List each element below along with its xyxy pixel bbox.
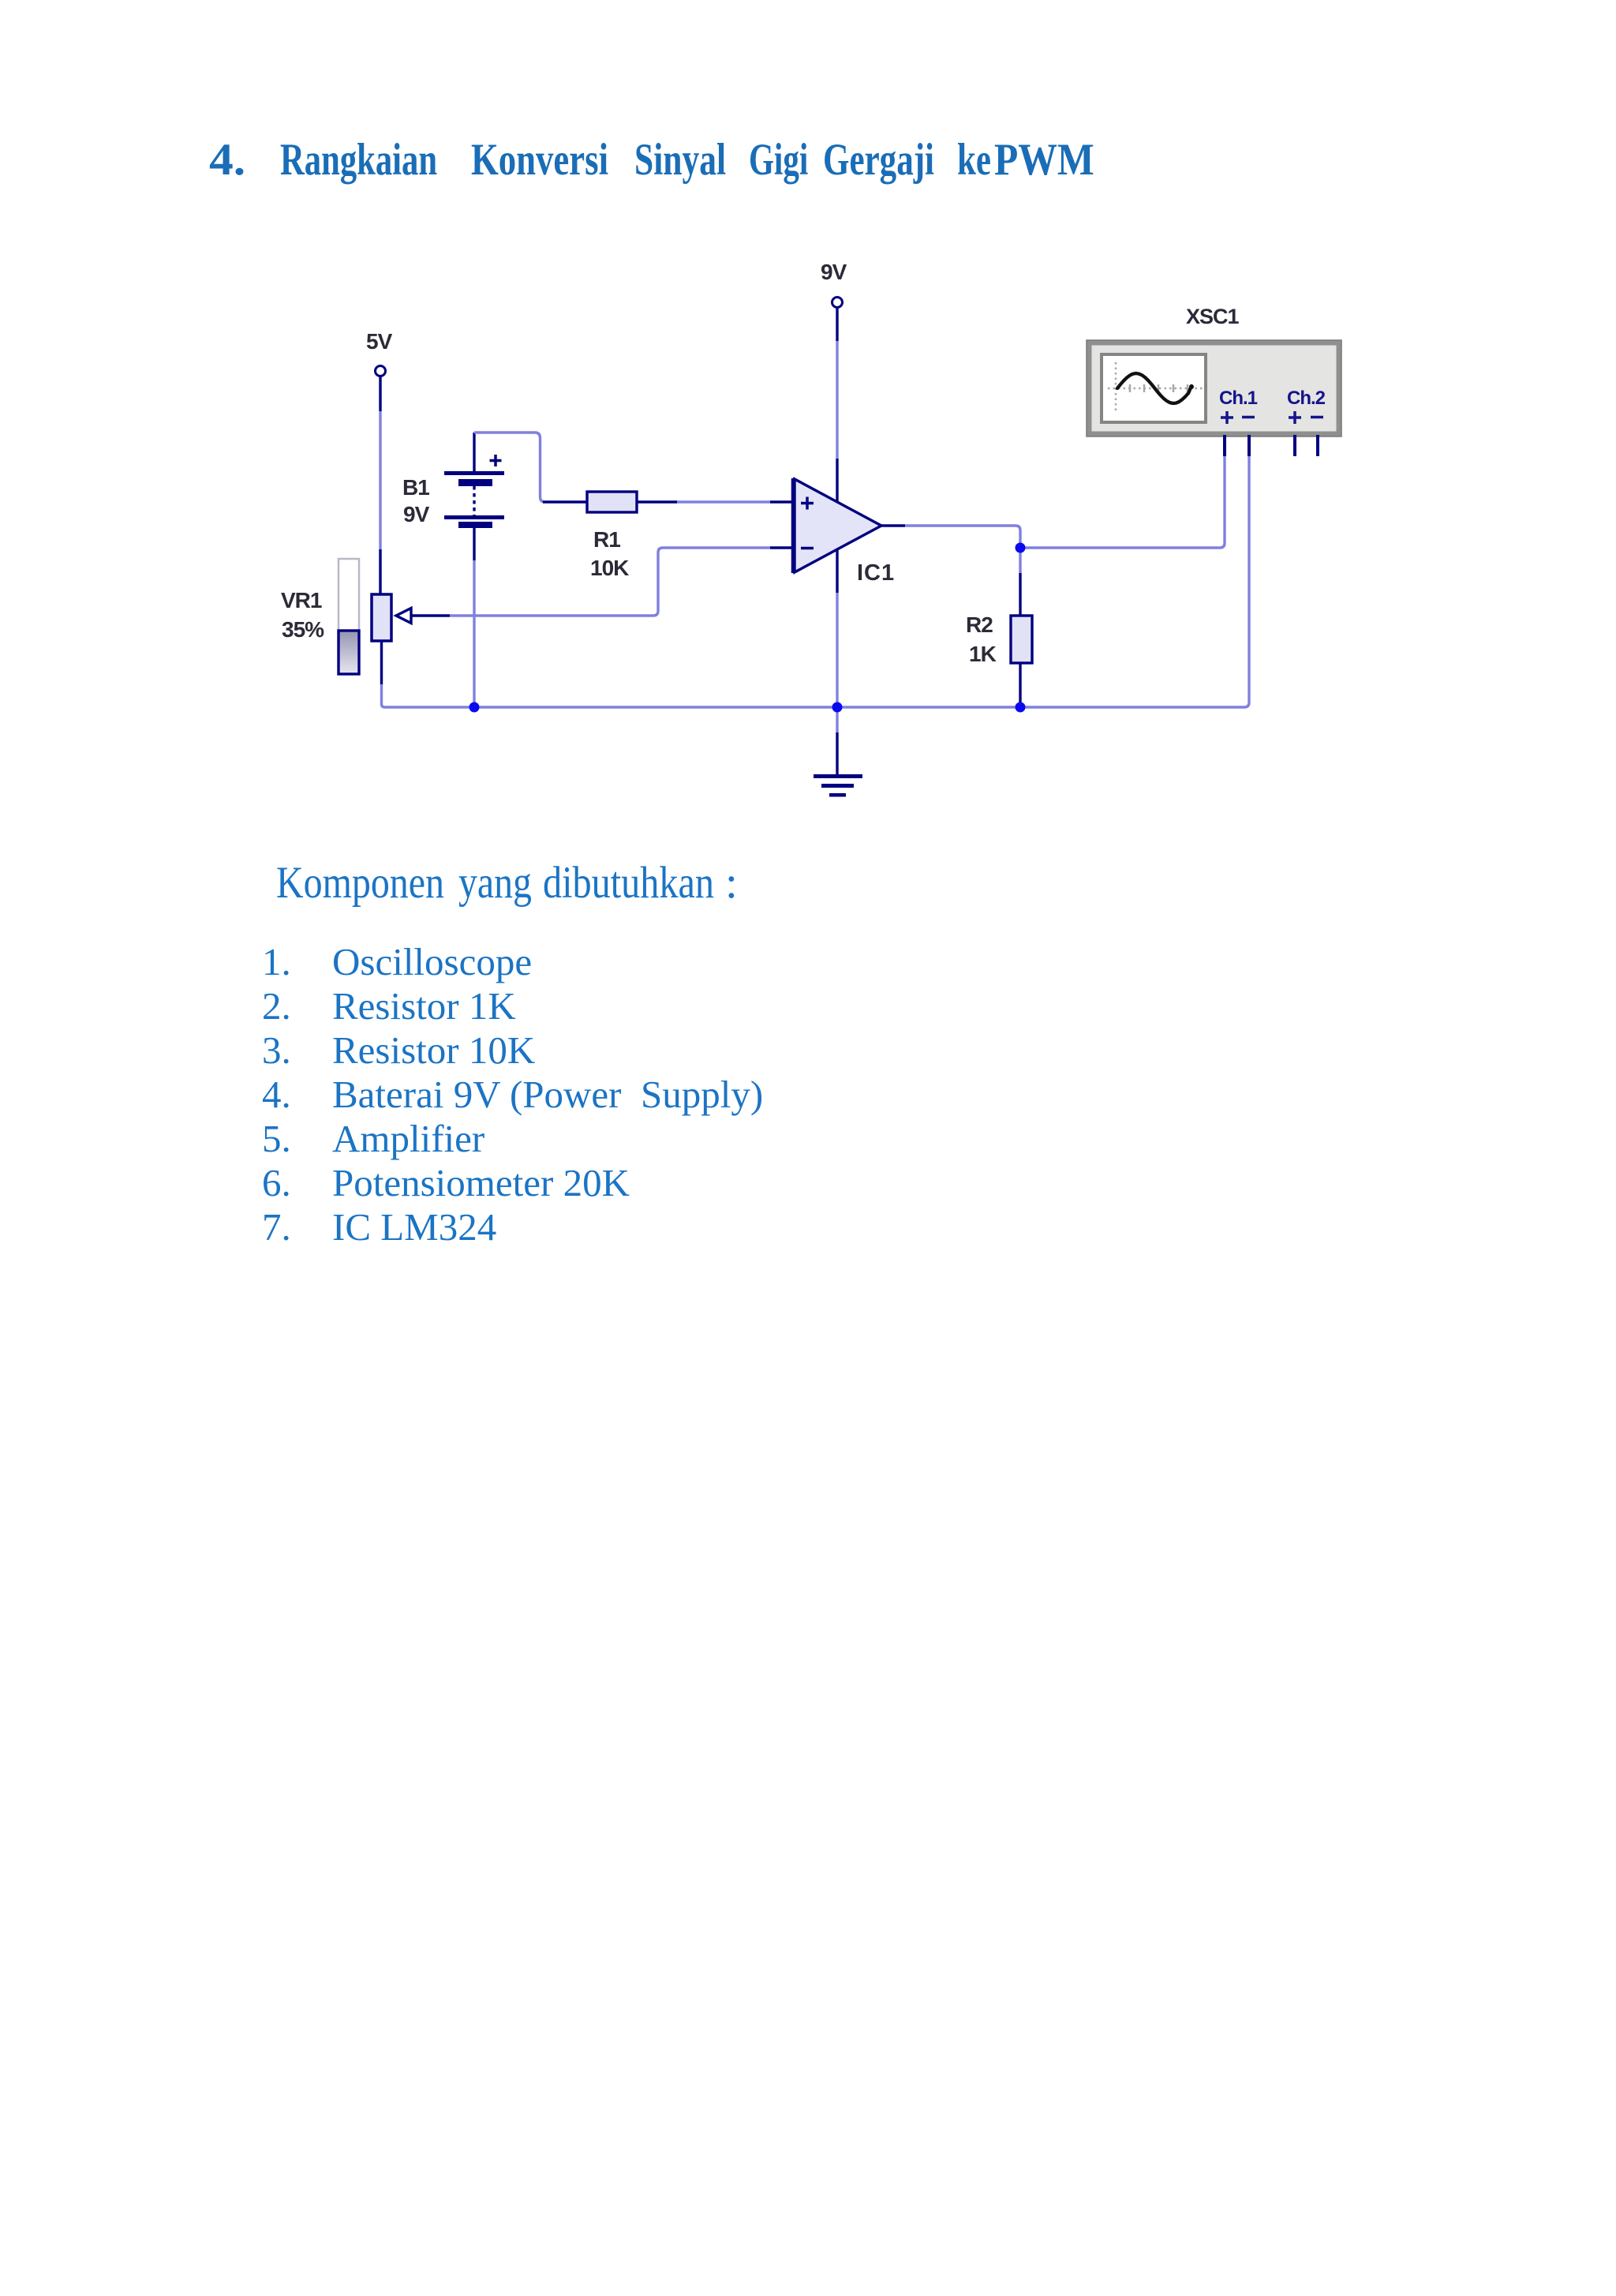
wire VR1 wiper to op-amp minus input: [411, 548, 794, 616]
wire 9V terminal to op-amp power pin: [836, 308, 838, 503]
wire battery minus to ground rail: [473, 560, 475, 707]
wire VR1 bottom to ground rail: [382, 641, 385, 707]
svg-text:10K: 10K: [590, 556, 629, 580]
pin Ch.1 plus: [1223, 435, 1226, 456]
wire battery plus to R1: [474, 433, 587, 502]
battery B1: [402, 433, 504, 560]
wire R2 bottom to ground rail: [1019, 663, 1021, 707]
node 9V label: [821, 260, 847, 284]
svg-text:R2: R2: [966, 612, 993, 637]
wire op-amp output to node A: [881, 526, 1020, 548]
svg-text:R1: R1: [593, 527, 620, 552]
svg-text:IC1: IC1: [857, 560, 895, 586]
document title: [209, 137, 245, 182]
resistor R2: [966, 612, 1032, 666]
wire node A to R2: [1019, 548, 1021, 616]
svg-text:9V: 9V: [403, 502, 430, 526]
node 5V label: [366, 329, 393, 354]
svg-text:9V: 9V: [821, 260, 847, 284]
junction node at ground / rail: [832, 702, 843, 713]
pin Ch.2 plus: [1293, 435, 1296, 456]
svg-text:Ch.1: Ch.1: [1219, 388, 1258, 409]
svg-text:5V: 5V: [366, 329, 393, 354]
svg-text:Ch.2: Ch.2: [1287, 388, 1326, 409]
junction node at battery minus / rail: [469, 702, 480, 713]
pin Ch.2 minus: [1316, 435, 1319, 456]
svg-text:VR1: VR1: [281, 588, 322, 612]
wire op-amp power pin to ground rail: [836, 548, 838, 707]
wire ground rail (bottom net): [385, 706, 1245, 708]
wire node A to scope Ch.1 plus: [1020, 456, 1225, 548]
svg-text:B1: B1: [402, 475, 429, 500]
svg-text:35%: 35%: [282, 617, 324, 642]
resistor R1: [587, 492, 637, 580]
wire ground rail to scope Ch.1 minus: [1244, 456, 1249, 707]
junction node A (op-amp output): [1016, 543, 1026, 553]
pin Ch.1 minus: [1248, 435, 1251, 456]
screen axes: [1115, 362, 1117, 414]
junction node at R2 / rail: [1016, 702, 1026, 713]
section heading: Komponen yang dibutuhkan: [276, 860, 444, 905]
ground: [814, 707, 862, 797]
potentiometer VR1: [281, 559, 411, 674]
svg-text:1K: 1K: [969, 642, 997, 666]
wire R1 to op-amp plus input: [637, 500, 794, 503]
wire 5V terminal to VR1 top: [379, 376, 381, 595]
svg-text:XSC1: XSC1: [1186, 305, 1240, 328]
terminal 9V: [832, 298, 843, 308]
terminal 5V: [376, 366, 386, 376]
op-amp IC1: [793, 478, 895, 586]
oscilloscope XSC1: [1087, 305, 1341, 456]
component list: [262, 942, 291, 981]
screen sine wave: [1117, 373, 1191, 403]
